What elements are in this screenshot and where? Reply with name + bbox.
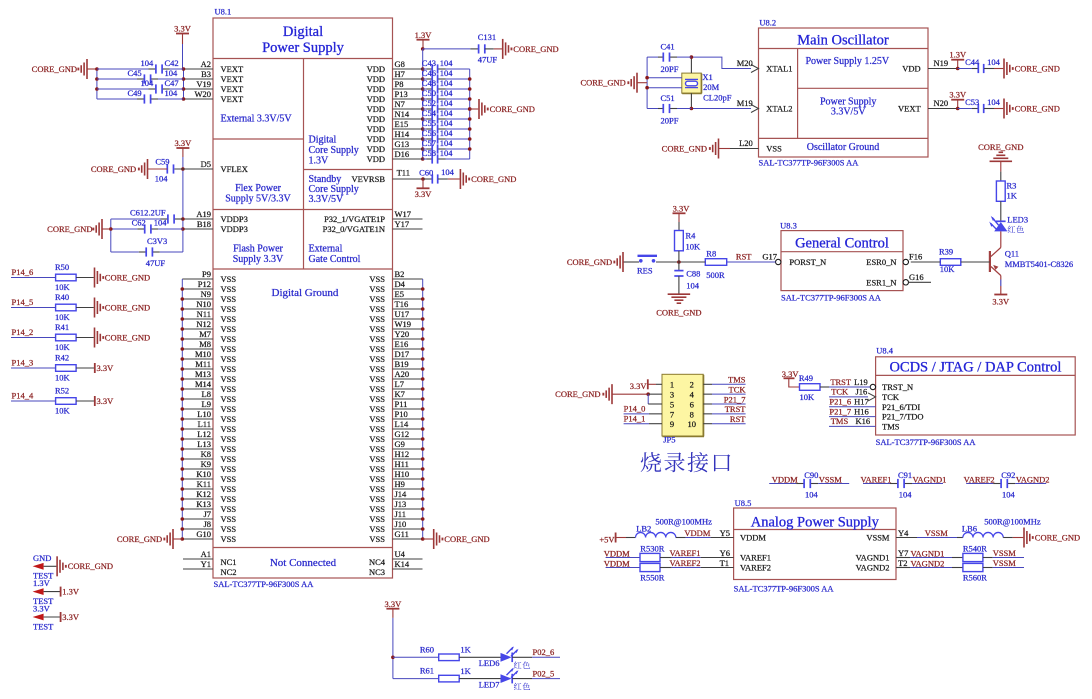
svg-text:VAREF1: VAREF1	[740, 553, 771, 563]
svg-text:H9: H9	[395, 479, 405, 489]
svg-text:104: 104	[165, 88, 179, 98]
wire junction to R8	[656, 261, 705, 263]
svg-text:H16: H16	[854, 406, 869, 416]
svg-text:VAGND1: VAGND1	[856, 553, 890, 563]
svg-text:20M: 20M	[703, 82, 720, 92]
net label P14_0 + wire JP5 pin7	[624, 404, 662, 414]
svg-text:C51: C51	[661, 93, 675, 103]
svg-text:500R@100MHz: 500R@100MHz	[984, 516, 1041, 526]
label 红色 (LED6)	[514, 661, 522, 668]
crystal X1 20M CL20pF	[682, 57, 732, 108]
LED LED3 红色	[989, 215, 1028, 232]
svg-text:104: 104	[899, 489, 913, 499]
svg-text:K10: K10	[196, 469, 211, 479]
svg-text:5: 5	[670, 399, 674, 409]
svg-text:10K: 10K	[800, 392, 816, 402]
svg-text:H7: H7	[395, 69, 405, 79]
capacitor C53 104	[958, 97, 1001, 113]
svg-text:VSS: VSS	[369, 324, 385, 334]
svg-text:P14_3: P14_3	[12, 358, 34, 368]
node bus junctions	[645, 76, 649, 80]
svg-text:E15: E15	[395, 119, 409, 129]
svg-text:CORE_GND: CORE_GND	[662, 144, 707, 154]
ground CORE_GND (C88)	[656, 294, 701, 317]
svg-text:VSS: VSS	[369, 314, 385, 324]
svg-text:L20: L20	[739, 138, 753, 148]
svg-text:R550R: R550R	[640, 573, 664, 583]
svg-text:M14: M14	[195, 379, 212, 389]
svg-text:104: 104	[805, 489, 819, 499]
net label VAREF1 + wire R53 to Y6	[660, 548, 734, 558]
resistor R49 10K	[799, 373, 820, 402]
net label VSSM + wire from R54	[983, 548, 1024, 558]
svg-text:A20: A20	[395, 369, 410, 379]
svg-text:104: 104	[140, 78, 154, 88]
svg-text:CORE_GND: CORE_GND	[513, 44, 558, 54]
svg-text:CORE_GND: CORE_GND	[490, 104, 535, 114]
svg-text:VSS: VSS	[221, 284, 237, 294]
svg-text:3.3V: 3.3V	[174, 24, 192, 34]
svg-text:104: 104	[440, 78, 454, 88]
right VSS bus junctions	[421, 287, 425, 541]
svg-text:104: 104	[441, 167, 455, 177]
svg-text:CL20pF: CL20pF	[703, 93, 732, 103]
power net 3.3V (R4)	[673, 203, 691, 230]
svg-text:3: 3	[670, 390, 674, 400]
svg-text:N11: N11	[197, 309, 211, 319]
svg-text:J13: J13	[395, 499, 407, 509]
svg-text:VSS: VSS	[221, 384, 237, 394]
svg-text:1K: 1K	[460, 666, 471, 676]
net label RST + wire JP5 pin10	[703, 414, 746, 424]
ground CORE_GND (C60)	[448, 169, 517, 189]
svg-text:CORE_GND: CORE_GND	[555, 389, 600, 399]
svg-text:R4: R4	[686, 230, 697, 240]
ground CORE_GND (X1)	[580, 73, 647, 93]
svg-text:VSS: VSS	[369, 474, 385, 484]
svg-text:+5V: +5V	[599, 535, 615, 545]
svg-text:C41: C41	[661, 42, 675, 52]
svg-text:G12: G12	[395, 429, 410, 439]
svg-text:10K: 10K	[55, 342, 71, 352]
net label VAREF2 + wire R55 to T1	[660, 558, 734, 568]
svg-text:1K: 1K	[460, 645, 471, 655]
svg-text:VSS: VSS	[369, 374, 385, 384]
node R60 junction	[391, 656, 395, 660]
wire crystal ground bus	[646, 57, 648, 108]
svg-text:H10: H10	[395, 469, 410, 479]
node 3.3V/A2 junction	[182, 67, 186, 71]
svg-text:VSS: VSS	[369, 384, 385, 394]
pin G17 PORST_N bubble	[762, 252, 781, 265]
svg-text:U17: U17	[395, 309, 410, 319]
svg-text:Not Connected: Not Connected	[270, 557, 337, 569]
svg-text:VDD: VDD	[367, 134, 385, 144]
svg-text:Analog Power Supply: Analog Power Supply	[751, 514, 880, 530]
svg-text:Power Supply: Power Supply	[262, 40, 345, 56]
svg-text:E5: E5	[395, 289, 404, 299]
svg-text:3.3V: 3.3V	[62, 612, 80, 622]
label 红色 (LED7)	[514, 683, 522, 690]
ground CORE_GND (right VSS bus)	[423, 529, 490, 549]
resistor R55 0R	[640, 563, 665, 582]
svg-text:8: 8	[690, 409, 694, 419]
svg-text:VSS: VSS	[369, 284, 385, 294]
node V19 junction	[182, 87, 186, 91]
svg-text:MMBT5401-C8326: MMBT5401-C8326	[1005, 259, 1073, 269]
resistor R60 1K	[393, 644, 472, 660]
pin Y17 P32_0/VGATE1N stub	[393, 219, 423, 229]
svg-text:20PF: 20PF	[661, 116, 679, 126]
svg-text:R50: R50	[55, 262, 69, 272]
svg-text:T2: T2	[898, 558, 907, 568]
pin N19 VDD wire	[928, 58, 958, 69]
svg-text:10K: 10K	[55, 372, 71, 382]
svg-text:SAL-TC377TP-96F300S AA: SAL-TC377TP-96F300S AA	[876, 437, 977, 447]
LED LED7 红色	[459, 668, 518, 690]
svg-text:LED7: LED7	[479, 679, 500, 689]
svg-text:M13: M13	[195, 369, 211, 379]
svg-text:G11: G11	[395, 529, 409, 539]
resistor R53 0R	[640, 543, 665, 561]
svg-text:RST: RST	[730, 414, 746, 424]
svg-text:VAREF2: VAREF2	[964, 474, 995, 484]
svg-text:P14_2: P14_2	[12, 327, 34, 337]
pin M20 XTAL1 wire	[691, 57, 758, 72]
svg-text:Digital: Digital	[283, 24, 323, 40]
svg-text:3.3V: 3.3V	[415, 189, 433, 199]
svg-text:H17: H17	[854, 397, 869, 407]
svg-text:VSSM: VSSM	[866, 533, 890, 543]
svg-text:VSS: VSS	[221, 504, 237, 514]
svg-text:TRST: TRST	[725, 404, 747, 414]
svg-text:1K: 1K	[1007, 191, 1018, 201]
label 红色 (LED3)	[1008, 226, 1016, 233]
svg-text:J10: J10	[395, 519, 407, 529]
svg-text:P21_7/TDO: P21_7/TDO	[882, 412, 924, 422]
svg-text:VSS: VSS	[221, 414, 237, 424]
pin D5 VFLEX wire	[174, 159, 213, 169]
svg-text:1: 1	[670, 380, 674, 390]
svg-text:TCK: TCK	[882, 392, 900, 402]
capacitor C90 104	[769, 470, 849, 499]
capacitor C60 104	[419, 167, 454, 184]
capacitor C58 104	[422, 148, 470, 164]
svg-text:P32_0/VGATE1N: P32_0/VGATE1N	[323, 224, 385, 234]
svg-text:K7: K7	[395, 389, 405, 399]
svg-text:V19: V19	[196, 79, 211, 89]
svg-text:L19: L19	[854, 377, 868, 387]
svg-text:VSS: VSS	[369, 514, 385, 524]
VSS bus junctions	[181, 287, 185, 541]
svg-text:L14: L14	[395, 419, 409, 429]
pin W17 P32_1/VGATE1P stub	[393, 209, 423, 219]
capacitor C47 104	[97, 78, 184, 94]
power net 3.3V (JP5 pin1)	[630, 379, 662, 391]
wire R39 to Q11 base	[961, 261, 990, 263]
capacitor C44 104	[958, 57, 1001, 73]
svg-text:VDDM: VDDM	[740, 533, 766, 543]
svg-text:VSS: VSS	[369, 464, 385, 474]
svg-text:104: 104	[154, 218, 168, 228]
svg-text:1.3V: 1.3V	[62, 586, 80, 596]
svg-text:C92: C92	[1001, 470, 1015, 480]
inductor LB2 500R@100MHz	[636, 516, 713, 537]
pin L20 VSS wire + ground CORE_GND	[662, 138, 759, 159]
svg-text:Oscillator Ground: Oscillator Ground	[807, 142, 880, 153]
svg-text:P21_6/TDI: P21_6/TDI	[882, 402, 920, 412]
svg-text:P21_6: P21_6	[829, 397, 851, 407]
svg-text:M11: M11	[195, 359, 211, 369]
svg-text:M7: M7	[199, 329, 211, 339]
svg-text:VSS: VSS	[221, 294, 237, 304]
wire right VSS ground bus	[422, 279, 424, 539]
svg-text:VSS: VSS	[221, 434, 237, 444]
wire R4 to junction	[678, 251, 680, 262]
wire CORE_GND to RES	[623, 261, 639, 263]
svg-text:Y7: Y7	[898, 548, 908, 558]
svg-text:VDD: VDD	[902, 64, 920, 74]
svg-text:VSSM: VSSM	[925, 528, 949, 538]
wire 1.3V VDD bus	[422, 49, 424, 159]
svg-text:10: 10	[688, 419, 697, 429]
pin B18 VDDP3 wire	[183, 219, 213, 229]
svg-text:VSS: VSS	[221, 274, 237, 284]
node X1 top junction	[690, 55, 694, 59]
svg-text:3.3V: 3.3V	[992, 297, 1010, 307]
svg-text:J7: J7	[203, 509, 211, 519]
svg-text:VDD: VDD	[367, 94, 385, 104]
svg-text:P21_7: P21_7	[724, 394, 746, 404]
svg-text:P02_5: P02_5	[533, 668, 555, 678]
net label VAGND1 + wire Y7 to R54	[896, 548, 963, 559]
pin Y1 NC2 stub	[183, 559, 213, 569]
resistor R56 0R	[963, 563, 987, 582]
svg-text:NC1: NC1	[221, 557, 237, 567]
svg-text:1.3V: 1.3V	[415, 30, 433, 40]
svg-text:C62: C62	[132, 218, 146, 228]
svg-text:VDD: VDD	[367, 84, 385, 94]
node 1.3V junction	[421, 47, 425, 51]
ground CORE_GND (VDDP3)	[47, 219, 111, 239]
svg-text:LED3: LED3	[1007, 215, 1028, 225]
test point GND TEST	[33, 553, 55, 581]
capacitor C42 104	[97, 58, 184, 74]
ground CORE_GND (C53)	[994, 99, 1060, 119]
svg-text:P14_6: P14_6	[12, 267, 34, 277]
svg-text:VSS: VSS	[221, 394, 237, 404]
svg-text:M10: M10	[195, 349, 211, 359]
svg-text:VSS: VSS	[221, 374, 237, 384]
svg-text:D17: D17	[395, 349, 410, 359]
resistor R54 0R	[963, 543, 987, 561]
svg-text:Main Oscillator: Main Oscillator	[797, 33, 889, 49]
svg-text:104: 104	[440, 148, 454, 158]
svg-text:500R: 500R	[706, 270, 725, 280]
svg-text:L9: L9	[202, 399, 211, 409]
power net 3.3V (test)	[44, 612, 80, 622]
capacitor C88 104	[674, 262, 700, 294]
svg-text:P02_6: P02_6	[533, 647, 555, 657]
capacitor C46 104	[422, 68, 470, 84]
svg-text:VSS: VSS	[221, 324, 237, 334]
svg-text:VAGND2: VAGND2	[1016, 474, 1050, 484]
svg-text:VSS: VSS	[221, 344, 237, 354]
pin A19 VDDP3 wire	[183, 209, 213, 219]
node RES junction	[677, 260, 681, 264]
svg-text:VEXT: VEXT	[221, 64, 244, 74]
VDD cap bus junctions	[468, 77, 472, 151]
node B18 left junction	[109, 227, 113, 231]
svg-text:VEXT: VEXT	[221, 94, 244, 104]
svg-text:K16: K16	[856, 416, 871, 426]
svg-text:R560R: R560R	[963, 573, 987, 583]
svg-text:Q11: Q11	[1005, 249, 1019, 259]
svg-text:C49: C49	[128, 88, 142, 98]
svg-text:A2: A2	[201, 59, 211, 69]
svg-text:C612.2UF: C612.2UF	[130, 208, 166, 218]
svg-text:VDD: VDD	[367, 124, 385, 134]
svg-text:104: 104	[1002, 489, 1016, 499]
svg-text:E16: E16	[395, 339, 409, 349]
svg-text:NC2: NC2	[221, 567, 237, 577]
svg-text:K8: K8	[201, 449, 211, 459]
svg-text:CORE_GND: CORE_GND	[444, 534, 489, 544]
svg-text:3.3V: 3.3V	[97, 396, 115, 406]
svg-text:VEXT: VEXT	[221, 74, 244, 84]
svg-text:A1: A1	[201, 549, 211, 559]
svg-text:VSS: VSS	[221, 474, 237, 484]
svg-text:VSS: VSS	[221, 444, 237, 454]
svg-text:U8.3: U8.3	[780, 221, 797, 231]
svg-text:CORE_GND: CORE_GND	[471, 174, 516, 184]
svg-text:General Control: General Control	[795, 236, 889, 252]
inductor LB6 500R@100MHz	[962, 516, 1041, 537]
svg-text:W20: W20	[194, 89, 211, 99]
resistor R4 10K	[675, 230, 702, 251]
svg-text:GND: GND	[33, 553, 51, 563]
pin G16 ESR1_N bubble + stub	[903, 272, 931, 285]
svg-text:B3: B3	[201, 69, 211, 79]
svg-text:CORE_GND: CORE_GND	[1035, 532, 1080, 542]
net label TRST + wire JP5 pin8	[703, 404, 746, 414]
svg-text:1.3V: 1.3V	[309, 155, 330, 166]
resistor R40 10K	[55, 292, 76, 322]
wire R3 to LED3	[1000, 201, 1002, 221]
net label VDDM + wire to R53	[604, 549, 640, 559]
svg-text:VSS: VSS	[369, 294, 385, 304]
svg-text:L7: L7	[395, 379, 404, 389]
IC U8.1 SAL-TC377TP-96F300S Digital Power Supply block	[213, 7, 393, 579]
svg-text:P8: P8	[395, 79, 404, 89]
svg-text:VSS: VSS	[221, 364, 237, 374]
net label VAGND2 + wire T2 to R56	[896, 558, 963, 569]
power net 3.3V (LED circuit)	[385, 599, 403, 618]
svg-text:VSS: VSS	[369, 534, 385, 544]
svg-text:RST: RST	[736, 252, 752, 262]
svg-text:10K: 10K	[55, 282, 71, 292]
svg-text:L13: L13	[197, 439, 211, 449]
svg-text:C52: C52	[422, 98, 436, 108]
svg-text:C3V3: C3V3	[147, 236, 167, 246]
svg-text:104: 104	[686, 280, 700, 290]
capacitor C48 104	[422, 78, 470, 94]
svg-text:P14_1: P14_1	[624, 414, 646, 424]
svg-text:3.3V: 3.3V	[385, 599, 403, 609]
svg-text:TCK: TCK	[831, 387, 849, 397]
net label P14_3	[11, 358, 56, 369]
svg-text:VSSM: VSSM	[993, 548, 1017, 558]
svg-text:R52: R52	[55, 385, 69, 395]
svg-text:H14: H14	[395, 129, 410, 139]
svg-text:CORE_GND: CORE_GND	[47, 224, 92, 234]
capacitor C45 104	[97, 68, 184, 84]
svg-text:N14: N14	[395, 109, 410, 119]
svg-text:T1: T1	[720, 558, 729, 568]
svg-text:G10: G10	[196, 529, 211, 539]
wire X1 case pins to bus	[647, 77, 682, 79]
wire VDD caps ground bus	[469, 69, 471, 159]
svg-text:T11: T11	[397, 168, 410, 178]
node B3 junction	[182, 77, 186, 81]
svg-text:104: 104	[440, 128, 454, 138]
svg-text:N19: N19	[934, 58, 949, 68]
svg-text:SAL-TC377TP-96F300S AA: SAL-TC377TP-96F300S AA	[734, 583, 835, 593]
capacitor C91 104	[860, 470, 946, 499]
net label P14_6	[11, 267, 56, 278]
wire to R3	[1000, 172, 1002, 181]
test point 1.3V TEST	[33, 578, 55, 606]
svg-text:VAREF1: VAREF1	[860, 474, 891, 484]
power net 3.3V (R49)	[782, 369, 800, 387]
svg-text:VSS: VSS	[369, 444, 385, 454]
svg-text:SAL-TC377TP-96F300S AA: SAL-TC377TP-96F300S AA	[781, 293, 882, 303]
svg-text:R49: R49	[799, 373, 813, 383]
svg-text:C56: C56	[422, 128, 436, 138]
svg-text:10K: 10K	[686, 241, 702, 251]
svg-text:U4: U4	[395, 549, 406, 559]
svg-text:PORST_N: PORST_N	[789, 257, 826, 267]
node cap bus junctions	[95, 67, 99, 71]
svg-text:RES: RES	[637, 265, 653, 275]
svg-text:K13: K13	[196, 499, 211, 509]
svg-text:W19: W19	[395, 319, 412, 329]
svg-text:L10: L10	[197, 409, 211, 419]
connector JP5 (header 2x5)	[662, 374, 704, 436]
svg-text:VSS: VSS	[221, 464, 237, 474]
node JP5 pin3 junction	[646, 392, 650, 396]
svg-text:CORE_GND: CORE_GND	[91, 164, 136, 174]
svg-text:10K: 10K	[55, 405, 71, 415]
svg-text:VAGND2: VAGND2	[911, 559, 945, 569]
svg-text:104: 104	[987, 57, 1001, 67]
resistor R39 10K	[939, 246, 961, 273]
svg-text:U8.1: U8.1	[215, 7, 232, 17]
svg-text:LB2: LB2	[636, 523, 651, 533]
svg-text:VDD: VDD	[367, 104, 385, 114]
svg-text:P14_0: P14_0	[624, 404, 646, 414]
svg-text:104: 104	[987, 97, 1001, 107]
svg-text:P12: P12	[198, 279, 211, 289]
capacitor C56 104	[422, 128, 470, 144]
svg-text:CORE_GND: CORE_GND	[580, 77, 625, 87]
svg-text:N12: N12	[196, 319, 211, 329]
svg-text:VSS: VSS	[369, 454, 385, 464]
svg-text:C58: C58	[422, 148, 436, 158]
svg-text:N7: N7	[395, 99, 405, 109]
pin T11 VEVRSB wire	[393, 168, 424, 180]
svg-text:3.3V: 3.3V	[673, 203, 691, 213]
